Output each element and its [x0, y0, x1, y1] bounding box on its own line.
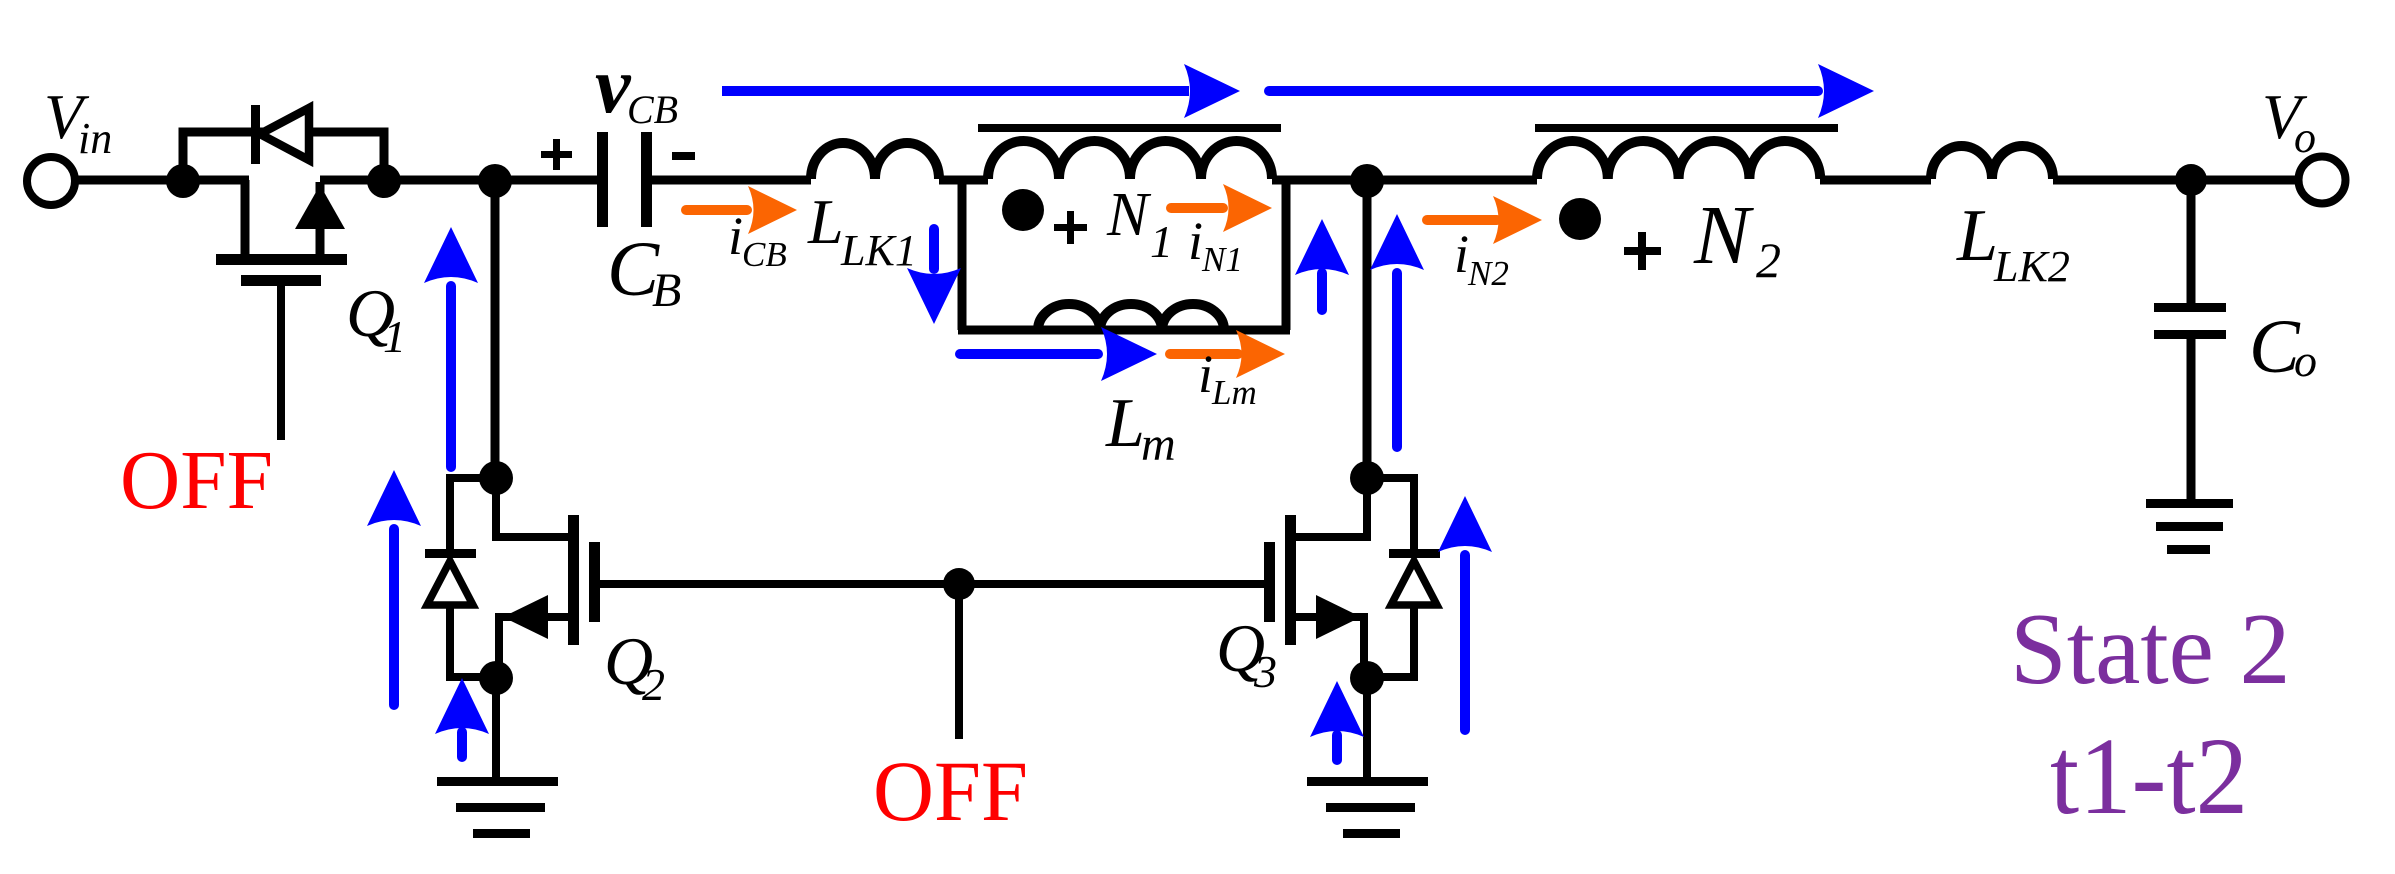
svg-text:State 2: State 2 — [2010, 593, 2290, 706]
current arrow iCB (orange) — [681, 186, 797, 234]
polarity dot N2 — [1559, 198, 1601, 240]
wire: Vin to Q1 drain — [75, 176, 249, 185]
Q2 top junction dot — [479, 461, 513, 495]
Q2 body diode branch — [450, 478, 496, 677]
svg-text:LK1: LK1 — [840, 226, 917, 275]
winding Lm — [1038, 304, 1224, 330]
Q2 drain jog — [496, 478, 569, 537]
current arrow up Q2 source (blue) — [435, 678, 489, 762]
wire: Q1 body-diode branch top — [183, 132, 384, 180]
Q2 channel bar — [568, 515, 579, 645]
svg-text:OFF: OFF — [120, 434, 273, 527]
junction node C top — [1350, 164, 1384, 198]
inductor LLK1 — [811, 143, 939, 179]
wire: N1 to N2 across junction — [1272, 176, 1537, 185]
Q3 gate bar — [1264, 542, 1275, 622]
winding N2 — [1537, 141, 1820, 179]
svg-text:t1-t2: t1-t2 — [2050, 715, 2248, 837]
inductor LLK2 — [1931, 146, 2053, 179]
svg-text:Lm: Lm — [1211, 373, 1257, 412]
wire: Q1 source vertical — [316, 182, 325, 259]
plus sign N2 — [1624, 232, 1661, 270]
svg-text:2: 2 — [642, 659, 665, 710]
wire: Co branch vertical upper — [2187, 180, 2196, 303]
core bar N1 — [978, 124, 1281, 132]
Q3 drain jog — [1294, 478, 1367, 537]
svg-text:LK2: LK2 — [1993, 242, 2070, 291]
current arrow up Q2 diode (blue) — [367, 470, 421, 710]
wire: Lm loop bottom — [958, 326, 1290, 335]
svg-text:N: N — [1106, 181, 1152, 249]
current arrow loop top-1 (blue) — [722, 64, 1240, 118]
svg-text:2: 2 — [1756, 232, 1781, 288]
ground Q2 — [437, 777, 558, 838]
capacitor Co — [2154, 303, 2226, 339]
minus sign CB — [672, 152, 695, 160]
svg-text:o: o — [2294, 113, 2316, 162]
svg-text:N1: N1 — [1201, 240, 1243, 279]
wire: N2 to LLK2 — [1820, 176, 1931, 185]
svg-text:i: i — [1188, 211, 1203, 271]
junction node Vo-Co — [2175, 164, 2207, 196]
current arrow Lm horizontal (blue) — [955, 327, 1157, 381]
svg-text:N2: N2 — [1467, 254, 1509, 293]
Q2 source wire — [499, 617, 569, 678]
svg-text:CB: CB — [742, 235, 787, 274]
wire: LLK1 to N1 — [939, 176, 988, 185]
current arrow iLm (orange) — [1165, 330, 1285, 378]
svg-text:o: o — [2294, 335, 2317, 386]
current arrow loop top-2 (blue) — [1264, 64, 1874, 118]
transistor Q2 — [425, 461, 600, 780]
Q3 body diode branch — [1367, 478, 1414, 677]
winding N1 — [988, 141, 1272, 179]
wire: Lm loop left vertical — [958, 180, 967, 330]
ground Q3 — [1307, 777, 1428, 838]
Q2 source to ground wire — [492, 678, 500, 780]
svg-text:CB: CB — [627, 87, 678, 132]
svg-text:OFF: OFF — [873, 743, 1028, 839]
polarity dot N1 — [1002, 189, 1044, 231]
wire: Lm loop right vertical — [1282, 180, 1291, 330]
wire: node B vertical to Q2 — [491, 180, 500, 478]
svg-text:1: 1 — [383, 311, 406, 362]
svg-text:i: i — [728, 206, 743, 266]
Q2 source arrow — [503, 595, 548, 639]
wire: gate bus Q2-Q3 — [598, 580, 1266, 588]
current arrow up node B (blue) — [424, 227, 478, 472]
svg-text:L: L — [807, 186, 844, 257]
svg-text:L: L — [1105, 385, 1145, 462]
current arrow up Lm right (blue) — [1295, 219, 1349, 315]
Q3 source wire — [1294, 617, 1364, 678]
junction gate bus dot — [943, 568, 975, 600]
core bar N2 — [1535, 124, 1838, 132]
wire: node C vertical to Q3 — [1363, 180, 1372, 478]
wire: Q1 source to CB left plate — [320, 176, 598, 185]
Q3 top junction dot — [1350, 461, 1384, 495]
svg-text:N: N — [1693, 189, 1754, 282]
Q3 source to ground wire — [1363, 678, 1371, 780]
current arrow iN1 (orange) — [1166, 184, 1272, 232]
wire: LLK2 to Vo — [2053, 176, 2295, 185]
current arrow up Q3 source (blue) — [1310, 681, 1364, 765]
svg-text:3: 3 — [1253, 646, 1277, 697]
plus sign CB — [541, 139, 572, 170]
svg-text:i: i — [1198, 344, 1213, 404]
svg-text:1: 1 — [1150, 216, 1173, 267]
Q2 gate bar — [589, 542, 600, 622]
wire: Q1 drain jog — [241, 180, 250, 259]
ground Co — [2146, 499, 2233, 554]
transistor Q3 — [1264, 461, 1440, 780]
wire: CB right plate to LLK1 — [652, 176, 811, 185]
wire: gate bus stub down — [955, 584, 963, 739]
junction node B top — [478, 164, 512, 198]
wire: Co branch vertical lower — [2187, 338, 2196, 500]
svg-text:in: in — [78, 114, 112, 163]
plus sign N1 — [1054, 211, 1087, 244]
terminal Vo — [2299, 157, 2346, 204]
current arrow iN2 (orange) — [1422, 196, 1542, 244]
Q3 source arrow — [1316, 595, 1361, 639]
diode D1 (Q1 body diode) — [251, 105, 309, 164]
transistor Q1 — [216, 185, 347, 440]
junction node A2 (diode right) — [367, 164, 401, 198]
svg-text:B: B — [652, 264, 681, 317]
Q2 source junction dot — [479, 661, 513, 695]
svg-text:i: i — [1454, 224, 1469, 284]
current arrow up Q3 diode (blue) — [1438, 496, 1492, 735]
svg-text:m: m — [1141, 418, 1176, 471]
Q3 source junction dot — [1350, 661, 1384, 695]
capacitor CB — [597, 132, 652, 227]
terminal Vin — [27, 157, 75, 205]
junction node A (Vin-diode) — [166, 164, 200, 198]
svg-text:L: L — [1956, 195, 1998, 277]
current arrow up node C (blue) — [1370, 214, 1424, 452]
Q3 channel bar — [1285, 515, 1296, 645]
current arrow down LLK1 (blue) — [907, 224, 961, 324]
